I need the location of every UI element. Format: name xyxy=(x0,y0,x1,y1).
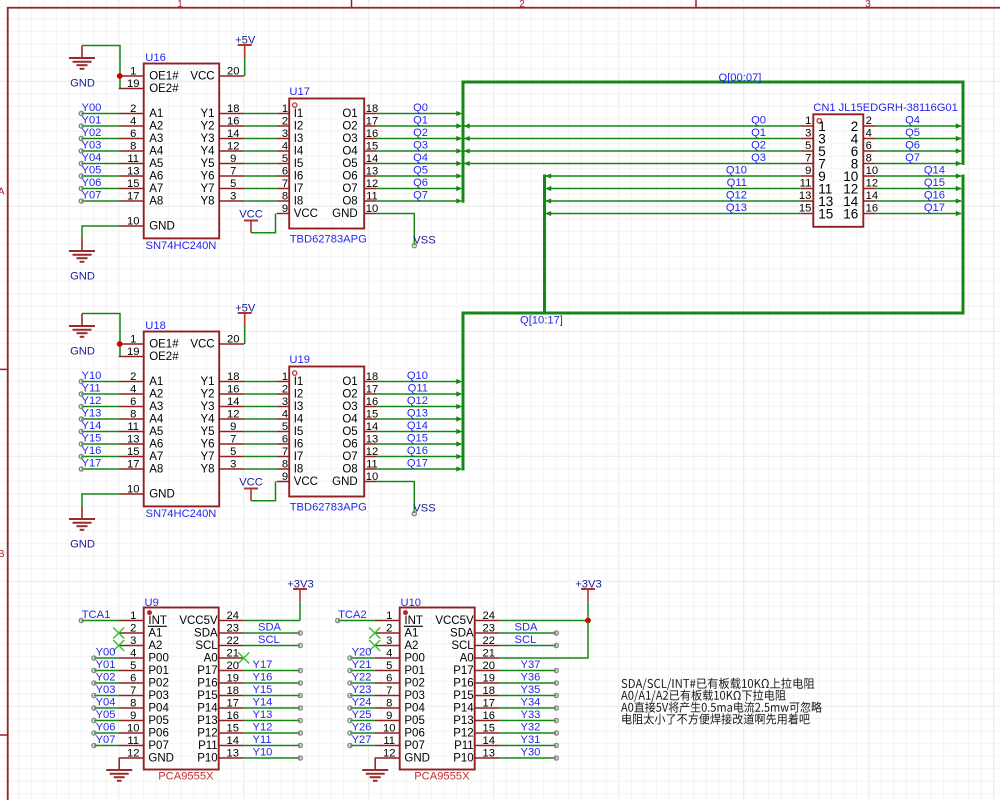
svg-text:Y30: Y30 xyxy=(521,747,541,759)
pin 20 P17 of U9 xyxy=(197,660,243,677)
svg-text:Q5: Q5 xyxy=(413,164,428,176)
svg-text:20: 20 xyxy=(482,660,494,672)
pin 24 VCC5V of U9 xyxy=(179,610,243,627)
wire Y02 to U16 xyxy=(81,138,118,140)
svg-text:16: 16 xyxy=(366,396,378,408)
open endpoint TCA1 xyxy=(79,618,83,622)
svg-text:VCC: VCC xyxy=(294,208,318,220)
pin 13 O6 of U19 xyxy=(342,433,378,450)
pin 5 Y7 of U18 xyxy=(201,446,245,463)
svg-text:I4: I4 xyxy=(294,146,304,158)
svg-text:A2: A2 xyxy=(149,389,163,401)
pin 16 P13 of U10 xyxy=(453,710,499,727)
svg-text:I1: I1 xyxy=(294,376,304,388)
bus Q[10:17] right xyxy=(545,175,964,314)
svg-text:SN74HC240N: SN74HC240N xyxy=(146,240,217,252)
pin 2 A1 of U16 xyxy=(119,103,164,120)
pin 8 A4 of U16 xyxy=(119,140,164,157)
svg-text:18: 18 xyxy=(366,103,378,115)
svg-text:VCC: VCC xyxy=(294,476,318,488)
bus Q[10:17] left riser xyxy=(543,175,546,315)
svg-text:Y16: Y16 xyxy=(253,672,273,684)
power VCC at U17 xyxy=(239,209,263,233)
text note (Chinese annotation) xyxy=(621,678,822,725)
open endpoint Y11 xyxy=(298,743,302,747)
svg-text:A4: A4 xyxy=(149,146,164,158)
wire Y06 to U16 xyxy=(81,188,118,190)
open endpoint Y22 xyxy=(348,681,352,685)
svg-text:11: 11 xyxy=(366,190,378,202)
svg-text:19: 19 xyxy=(482,672,494,684)
wire U17 pin10 to VSS xyxy=(377,214,415,246)
wire CN1 pin 14 Q16 to bus xyxy=(876,200,961,202)
bus entry Q4 xyxy=(956,123,962,128)
svg-text:8: 8 xyxy=(282,190,288,202)
bus entry Q0 xyxy=(456,111,462,116)
svg-text:14: 14 xyxy=(226,735,238,747)
IC U18 SN74HC240N xyxy=(144,332,220,507)
svg-text:Y01: Y01 xyxy=(96,659,116,671)
svg-text:Q6: Q6 xyxy=(905,139,920,151)
svg-text:10: 10 xyxy=(383,722,395,734)
ruler tick y=369 xyxy=(0,368,9,370)
wire U9.SCL to SCL xyxy=(244,645,301,647)
wire VCC to U19 pin9 xyxy=(251,482,276,501)
bus entry Q14 xyxy=(456,429,462,434)
svg-text:Y13: Y13 xyxy=(253,709,273,721)
svg-text:11: 11 xyxy=(127,735,139,747)
pin 6 A3 of U18 xyxy=(119,396,164,413)
no-connect flag U9.A2 xyxy=(113,640,124,651)
svg-text:GND: GND xyxy=(148,753,174,765)
open endpoint Y35 xyxy=(554,693,558,697)
svg-text:Q3: Q3 xyxy=(413,139,428,151)
svg-text:14: 14 xyxy=(227,128,239,140)
svg-text:2: 2 xyxy=(519,0,525,10)
svg-text:A8: A8 xyxy=(149,196,163,208)
svg-text:2: 2 xyxy=(130,622,136,634)
svg-text:P15: P15 xyxy=(197,690,217,702)
svg-text:14: 14 xyxy=(482,735,494,747)
pin 6 P02 of U10 xyxy=(375,672,425,689)
wire bus to CN1 pin 7 Q3 xyxy=(463,163,801,165)
svg-text:GND: GND xyxy=(149,489,175,501)
ground at U16 pin10 xyxy=(69,226,119,282)
wire Y15 to U18 xyxy=(81,443,118,445)
wire U16.Y5 to U17.I5 xyxy=(244,163,277,165)
wire Y04 to U9.P04 xyxy=(94,707,119,709)
svg-text:Q15: Q15 xyxy=(924,177,945,189)
wire U19.O1 Q10 to bus xyxy=(377,381,460,383)
open endpoint Y06 xyxy=(92,731,96,735)
pin 18 Y1 of U18 xyxy=(201,371,245,388)
pin 8 A4 of U18 xyxy=(119,408,164,425)
svg-text:P10: P10 xyxy=(453,753,473,765)
svg-text:8: 8 xyxy=(282,458,288,470)
svg-text:10: 10 xyxy=(866,165,878,177)
pin 1 I1 of U19 xyxy=(277,371,304,388)
wire U18.Y1 to U19.I1 xyxy=(244,381,277,383)
svg-text:5: 5 xyxy=(805,140,811,152)
wire Y03 to U16 xyxy=(81,150,118,152)
svg-text:19: 19 xyxy=(226,672,238,684)
wire bus to CN1 pin 15 Q13 xyxy=(545,213,801,215)
pin 16 O3 of U19 xyxy=(342,396,378,413)
svg-text:17: 17 xyxy=(127,458,139,470)
bus entry Q13 xyxy=(456,416,462,421)
pin 14 of CN1 xyxy=(843,190,878,209)
svg-text:A6: A6 xyxy=(149,439,163,451)
wire U9.SDA to SDA xyxy=(244,632,301,634)
open endpoint Y26 xyxy=(348,731,352,735)
svg-text:15: 15 xyxy=(818,206,833,221)
open endpoint Y07 xyxy=(79,199,83,203)
wire U19.O6 Q15 to bus xyxy=(377,443,460,445)
open endpoint Y24 xyxy=(348,706,352,710)
open endpoint Y11 xyxy=(79,392,83,396)
svg-text:A0: A0 xyxy=(460,653,474,665)
svg-text:Y6: Y6 xyxy=(201,439,215,451)
pin 17 A8 of U18 xyxy=(119,458,164,475)
bus entry Q1 xyxy=(456,123,462,128)
svg-text:Y12: Y12 xyxy=(253,722,273,734)
svg-text:10: 10 xyxy=(127,483,139,495)
pin 18 O1 of U19 xyxy=(342,371,378,388)
svg-text:Y2: Y2 xyxy=(201,389,215,401)
wire bus to CN1 pin 1 Q0 xyxy=(463,125,801,127)
wire bus to CN1 pin 3 Q1 xyxy=(463,138,801,140)
svg-text:12: 12 xyxy=(227,408,239,420)
svg-text:Q4: Q4 xyxy=(905,114,920,126)
svg-text:A4: A4 xyxy=(149,414,164,426)
svg-text:I8: I8 xyxy=(294,464,304,476)
wire U10.VCC5V to +3V3 xyxy=(500,620,588,622)
pin 20 P17 of U10 xyxy=(453,660,499,677)
svg-text:16: 16 xyxy=(227,383,239,395)
pin 21 A0 of U10 xyxy=(460,647,500,664)
pin 17 O2 of U19 xyxy=(342,383,378,400)
open endpoint Y05 xyxy=(79,174,83,178)
svg-text:Y10: Y10 xyxy=(253,747,273,759)
open endpoint Y13 xyxy=(298,718,302,722)
pin 9 of CN1 xyxy=(801,165,826,184)
wire U19.O3 Q12 to bus xyxy=(377,406,460,408)
bus entry Q6 xyxy=(956,148,962,153)
svg-text:1: 1 xyxy=(130,333,136,345)
svg-text:Q2: Q2 xyxy=(413,127,428,139)
svg-text:Y06: Y06 xyxy=(82,177,102,189)
pin 12 Y4 of U16 xyxy=(201,140,245,157)
svg-text:O5: O5 xyxy=(342,426,357,438)
svg-text:GND: GND xyxy=(332,476,358,488)
pin 17 P14 of U10 xyxy=(453,697,499,714)
wire U17.O8 Q7 to bus xyxy=(377,200,460,202)
ground at U18 OE xyxy=(69,314,120,358)
svg-text:3: 3 xyxy=(805,128,811,140)
svg-text:P14: P14 xyxy=(453,703,474,715)
svg-text:Y22: Y22 xyxy=(352,672,372,684)
svg-text:Y1: Y1 xyxy=(201,376,215,388)
open endpoint Y00 xyxy=(79,111,83,115)
svg-text:Y07: Y07 xyxy=(82,189,102,201)
svg-text:7: 7 xyxy=(386,685,392,697)
pin 18 O1 of U17 xyxy=(342,103,378,120)
bus entry Q6 xyxy=(456,186,462,191)
wire U19 pin10 to VSS xyxy=(377,482,415,514)
ruler tick x=351 xyxy=(351,0,353,9)
svg-text:Y34: Y34 xyxy=(521,697,541,709)
svg-text:OE1#: OE1# xyxy=(149,71,179,83)
wire Y21 to U10.P01 xyxy=(350,670,375,672)
wire bus to CN1 pin 5 Q2 xyxy=(463,150,801,152)
open endpoint Y10 xyxy=(79,379,83,383)
svg-text:9: 9 xyxy=(282,203,288,215)
wire bus to CN1 pin 11 Q11 xyxy=(545,188,801,190)
open endpoint Y14 xyxy=(298,706,302,710)
svg-text:P00: P00 xyxy=(404,653,424,665)
pin 9 Y5 of U16 xyxy=(201,153,245,170)
open endpoint Y14 xyxy=(79,429,83,433)
wire Y01 to U9.P01 xyxy=(94,670,119,672)
pin 12 of CN1 xyxy=(843,178,878,197)
svg-text:15: 15 xyxy=(127,446,139,458)
svg-text:16: 16 xyxy=(366,128,378,140)
svg-text:Q4: Q4 xyxy=(413,152,428,164)
wire TCA2 to U10 pin1 xyxy=(338,620,375,622)
svg-text:Y04: Y04 xyxy=(82,152,102,164)
open endpoint Y32 xyxy=(554,731,558,735)
pin 10 P06 of U9 xyxy=(119,722,169,739)
svg-text:Y25: Y25 xyxy=(352,709,372,721)
svg-text:Y37: Y37 xyxy=(521,659,541,671)
open endpoint Y17 xyxy=(79,467,83,471)
pin 9 VCC of U17 xyxy=(277,203,318,220)
ground at U9 pin12 xyxy=(106,758,132,781)
svg-text:O6: O6 xyxy=(342,171,357,183)
pin 18 P15 of U10 xyxy=(453,685,499,702)
svg-text:SDA: SDA xyxy=(450,628,474,640)
svg-text:Q13: Q13 xyxy=(726,202,747,214)
svg-text:Y3: Y3 xyxy=(201,133,215,145)
junction xyxy=(117,73,123,79)
svg-text:A5: A5 xyxy=(149,426,163,438)
svg-text:Y4: Y4 xyxy=(201,414,216,426)
open endpoint Y30 xyxy=(554,756,558,760)
pin 16 of CN1 xyxy=(843,203,878,222)
svg-text:VCC: VCC xyxy=(190,339,214,351)
pin 14 P11 of U9 xyxy=(198,735,244,752)
svg-text:GND: GND xyxy=(404,753,430,765)
svg-text:Y24: Y24 xyxy=(352,697,372,709)
pin 14 O5 of U19 xyxy=(342,421,378,438)
wire U10.P17 to Y37 xyxy=(500,670,557,672)
svg-text:3: 3 xyxy=(282,396,288,408)
svg-text:INT: INT xyxy=(148,615,167,627)
pin 6 of CN1 xyxy=(851,140,876,159)
svg-text:Q7: Q7 xyxy=(413,189,428,201)
wire U16.Y2 to U17.I2 xyxy=(244,125,277,127)
pin 15 P12 of U9 xyxy=(197,722,243,739)
ground at U16 OE xyxy=(69,46,120,90)
IC U10 PCA9555X xyxy=(400,608,475,770)
svg-text:8: 8 xyxy=(130,697,136,709)
svg-text:11: 11 xyxy=(383,735,395,747)
svg-text:OE1#: OE1# xyxy=(149,339,179,351)
open endpoint Y21 xyxy=(348,668,352,672)
wire U9.P10 to Y10 xyxy=(244,757,301,759)
svg-text:21: 21 xyxy=(226,647,238,659)
wire U19.O7 Q16 to bus xyxy=(377,456,460,458)
wire Y27 to U10.P07 xyxy=(350,745,375,747)
svg-text:22: 22 xyxy=(226,635,238,647)
svg-text:Q16: Q16 xyxy=(924,189,945,201)
svg-text:11: 11 xyxy=(366,458,378,470)
open endpoint Y31 xyxy=(554,743,558,747)
pin 1 OE1# of U18 xyxy=(119,333,180,350)
bus entry Q1 xyxy=(464,136,470,141)
svg-text:1: 1 xyxy=(282,371,288,383)
svg-text:Y15: Y15 xyxy=(82,432,102,444)
power +5V at U16 xyxy=(235,34,256,76)
svg-text:GND: GND xyxy=(149,221,175,233)
pin 24 VCC5V of U10 xyxy=(435,610,499,627)
svg-text:8: 8 xyxy=(130,140,136,152)
bus entry Q7 xyxy=(956,161,962,166)
svg-text:Y03: Y03 xyxy=(82,139,102,151)
pin 3 Y8 of U18 xyxy=(201,458,245,475)
wire Y16 to U18 xyxy=(81,456,118,458)
svg-text:Q3: Q3 xyxy=(751,152,766,164)
svg-text:I8: I8 xyxy=(294,196,304,208)
pin 5 Y7 of U16 xyxy=(201,178,245,195)
wire U10.P12 to Y32 xyxy=(500,732,557,734)
svg-text:P07: P07 xyxy=(404,740,424,752)
svg-text:O2: O2 xyxy=(342,121,357,133)
wire U16.Y7 to U17.I7 xyxy=(244,188,277,190)
svg-text:Y11: Y11 xyxy=(253,734,272,746)
svg-text:P04: P04 xyxy=(404,703,425,715)
pin 17 A8 of U16 xyxy=(119,190,164,207)
svg-text:A3: A3 xyxy=(149,133,163,145)
wire Y14 to U18 xyxy=(81,431,118,433)
svg-text:9: 9 xyxy=(230,153,236,165)
svg-text:PCA9555X: PCA9555X xyxy=(414,770,470,782)
svg-text:A5: A5 xyxy=(149,158,163,170)
pin 10 GND of U18 xyxy=(119,483,175,500)
svg-text:GND: GND xyxy=(70,270,95,282)
svg-text:U9: U9 xyxy=(145,597,159,609)
svg-text:18: 18 xyxy=(482,685,494,697)
svg-text:Y21: Y21 xyxy=(352,659,372,671)
pin 3 A2 of U9 xyxy=(119,635,163,652)
svg-text:VSS: VSS xyxy=(413,503,435,515)
svg-text:U18: U18 xyxy=(145,320,166,332)
svg-text:23: 23 xyxy=(482,622,494,634)
bus entry Q5 xyxy=(956,136,962,141)
svg-text:6: 6 xyxy=(130,396,136,408)
pin 2 A1 of U18 xyxy=(119,371,164,388)
svg-text:13: 13 xyxy=(127,165,139,177)
svg-text:P05: P05 xyxy=(404,715,424,727)
pin 13 P10 of U9 xyxy=(197,747,243,764)
svg-text:I2: I2 xyxy=(294,121,304,133)
svg-text:Y8: Y8 xyxy=(201,464,215,476)
wire U10.P11 to Y31 xyxy=(500,745,557,747)
pin 19 P16 of U10 xyxy=(453,672,499,689)
pin 11 of CN1 xyxy=(800,178,833,197)
pin 18 Y1 of U16 xyxy=(201,103,245,120)
open endpoint Y01 xyxy=(79,124,83,128)
svg-text:P04: P04 xyxy=(148,703,169,715)
pin 4 I4 of U19 xyxy=(277,408,304,425)
svg-text:SCL: SCL xyxy=(195,640,218,652)
open endpoint SCL xyxy=(298,643,302,647)
bus entry Q10 xyxy=(545,173,551,178)
svg-text:17: 17 xyxy=(366,383,378,395)
svg-text:Y00: Y00 xyxy=(96,647,116,659)
pin 5 I5 of U19 xyxy=(277,421,304,438)
svg-text:O7: O7 xyxy=(342,451,357,463)
wire U9.P14 to Y14 xyxy=(244,707,301,709)
svg-text:A6: A6 xyxy=(149,171,163,183)
pin 17 P14 of U9 xyxy=(197,697,243,714)
svg-text:P06: P06 xyxy=(148,728,168,740)
svg-text:OE2#: OE2# xyxy=(149,83,179,95)
svg-text:OE2#: OE2# xyxy=(149,351,179,363)
svg-text:9: 9 xyxy=(130,710,136,722)
pin 1 OE1# of U16 xyxy=(119,65,180,82)
svg-text:Y05: Y05 xyxy=(82,164,102,176)
svg-text:4: 4 xyxy=(282,408,288,420)
pin 4 I4 of U17 xyxy=(277,140,304,157)
svg-text:Q7: Q7 xyxy=(905,152,920,164)
svg-text:Y7: Y7 xyxy=(201,451,215,463)
wire U9.P13 to Y13 xyxy=(244,720,301,722)
svg-text:Q12: Q12 xyxy=(407,395,428,407)
svg-text:I3: I3 xyxy=(294,401,304,413)
pin 15 A7 of U16 xyxy=(119,178,164,195)
wire U18.Y2 to U19.I2 xyxy=(244,393,277,395)
svg-text:P13: P13 xyxy=(453,715,473,727)
svg-text:13: 13 xyxy=(366,165,378,177)
pin 21 A0 of U9 xyxy=(204,647,244,664)
wire CN1 pin 8 Q7 to bus xyxy=(876,163,961,165)
svg-text:SDA: SDA xyxy=(258,622,282,634)
bus entry Q14 xyxy=(956,173,962,178)
bus entry Q13 xyxy=(545,211,551,216)
svg-text:I6: I6 xyxy=(294,171,304,183)
svg-text:20: 20 xyxy=(227,333,239,345)
pin 1 INT of U9 xyxy=(119,610,167,627)
pin 9 P05 of U9 xyxy=(119,710,169,727)
pin 10 of CN1 xyxy=(843,165,878,184)
svg-text:O2: O2 xyxy=(342,389,357,401)
svg-text:I7: I7 xyxy=(294,451,304,463)
pin 11 P07 of U10 xyxy=(375,735,425,752)
svg-text:1: 1 xyxy=(282,103,288,115)
pin 1 I1 of U17 xyxy=(277,103,304,120)
wire CN1 pin 6 Q6 to bus xyxy=(876,150,961,152)
svg-text:3: 3 xyxy=(230,190,236,202)
pin 13 P10 of U10 xyxy=(453,747,499,764)
wire Y07 to U16 xyxy=(81,200,118,202)
wire U9.P17 to Y17 xyxy=(244,670,301,672)
pin 13 O6 of U17 xyxy=(342,165,378,182)
svg-text:I4: I4 xyxy=(294,414,304,426)
svg-text:7: 7 xyxy=(230,165,236,177)
open endpoint SCL xyxy=(554,643,558,647)
pin 4 of CN1 xyxy=(851,128,876,147)
